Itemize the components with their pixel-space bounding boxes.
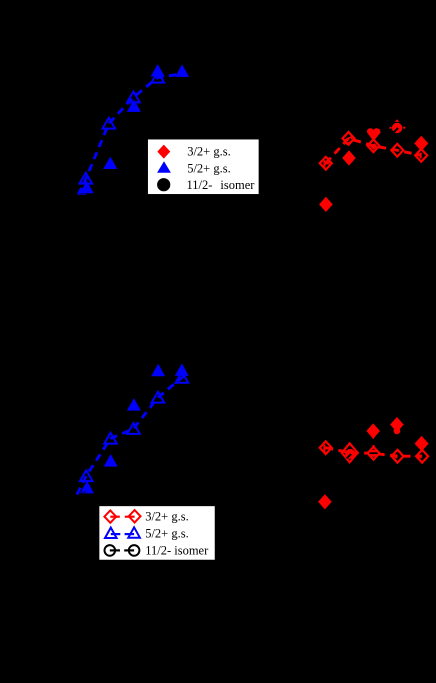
red open diamond D1 top xyxy=(320,157,332,170)
legend 2 row1 red dashed pair xyxy=(110,516,120,518)
red open diamond D2 bottom (large, overlapping pair) xyxy=(342,443,358,462)
blue filled triangle F4 top xyxy=(151,64,165,77)
svg-text:3/2+ g.s.: 3/2+ g.s. xyxy=(145,509,189,523)
legend 1 black circle xyxy=(157,178,170,191)
red open diamond D5 bottom xyxy=(416,450,428,463)
blue filled triangle F5 bottom xyxy=(175,363,189,376)
blue filled triangle F2 top xyxy=(103,157,117,170)
svg-text:11/2-isomer: 11/2-isomer xyxy=(187,178,256,192)
blue filled triangle F3 top xyxy=(127,99,141,112)
red open diamond D3 top xyxy=(367,139,379,152)
red open diamond D3 bottom xyxy=(368,447,380,460)
blue filled triangle F1 bottom xyxy=(80,481,94,494)
blue filled triangle F3 bottom xyxy=(127,398,141,411)
red filled heart (diamond+circle) F3 top xyxy=(367,128,381,141)
blue open triangle O4 bottom xyxy=(152,392,165,403)
blue dashed theory line (bottom panel) xyxy=(77,374,187,495)
legend 2 box xyxy=(98,505,215,561)
red open diamond D4 top xyxy=(391,144,403,157)
red tick inside D4 bottom xyxy=(395,454,397,458)
blue open triangle O1 bottom xyxy=(80,470,93,481)
blue open triangle O5 bottom xyxy=(176,372,189,383)
red tick inside D5 top xyxy=(420,153,422,159)
svg-text:3/2+ g.s.: 3/2+ g.s. xyxy=(187,145,231,159)
blue open triangle O3 bottom xyxy=(127,423,140,434)
red large filled diamond F5 bottom xyxy=(415,436,429,451)
red open diamond D5 top xyxy=(415,149,427,162)
red open diamond D2 top xyxy=(343,132,355,145)
blue open triangle O3 top xyxy=(127,92,140,103)
red filled diamond with bump F4 bottom xyxy=(390,417,404,434)
blue filled triangle F5 top xyxy=(175,64,189,77)
red wedge inside D3 top xyxy=(369,143,377,150)
red dot above D3 bottom xyxy=(372,445,374,447)
red filled circle inside D2 bottom xyxy=(345,449,355,459)
red filled circle with notch F4 top xyxy=(390,119,406,133)
red tiny triangle below F3 bottom xyxy=(371,437,375,440)
red dashed theory line (top panel) xyxy=(326,138,421,163)
blue filled triangle F4 bottom xyxy=(151,364,165,377)
red small glyph inside D1 bottom xyxy=(323,445,329,452)
legend 1 blue triangle xyxy=(157,161,171,173)
svg-text:11/2- isomer: 11/2- isomer xyxy=(145,544,209,558)
red filled diamond F3 bottom xyxy=(366,423,380,438)
red large filled diamond F5 top xyxy=(414,136,428,151)
blue open triangle O2 bottom xyxy=(104,433,117,444)
red glyph inside D3 bottom xyxy=(370,450,378,457)
navy errorbar cap top xyxy=(79,193,86,195)
blue open triangle O2 top xyxy=(103,118,116,129)
svg-text:5/2+ g.s.: 5/2+ g.s. xyxy=(187,161,231,175)
navy errorbar cap bottom xyxy=(79,491,86,493)
red filled diamond isolated top xyxy=(319,197,333,212)
blue dashed theory line (top panel) xyxy=(78,75,177,195)
red filled diamond F2 top xyxy=(342,150,356,165)
red tick inside D5 bottom xyxy=(419,455,421,459)
red small tilted box inside D2 top xyxy=(345,137,353,144)
red open diamond D1 bottom xyxy=(320,441,332,454)
blue open triangle O1 top xyxy=(80,173,93,184)
legend 1 red diamond xyxy=(157,145,170,159)
legend 1 box xyxy=(147,139,260,196)
red open diamond D4 bottom xyxy=(392,450,404,463)
blue filled triangle F2 bottom xyxy=(104,454,118,467)
blue open triangle O4 top xyxy=(152,72,165,83)
red small glyph inside D1 top xyxy=(323,160,329,166)
legend 2 row3 black dashed pair xyxy=(110,549,120,551)
red filled diamond isolated bottom xyxy=(318,494,332,509)
red dashed theory line (bottom panel) xyxy=(326,448,422,457)
blue filled triangle F1 top xyxy=(80,181,94,194)
legend 2 row2 blue dashed pair xyxy=(111,533,121,535)
svg-text:5/2+ g.s.: 5/2+ g.s. xyxy=(145,526,189,540)
